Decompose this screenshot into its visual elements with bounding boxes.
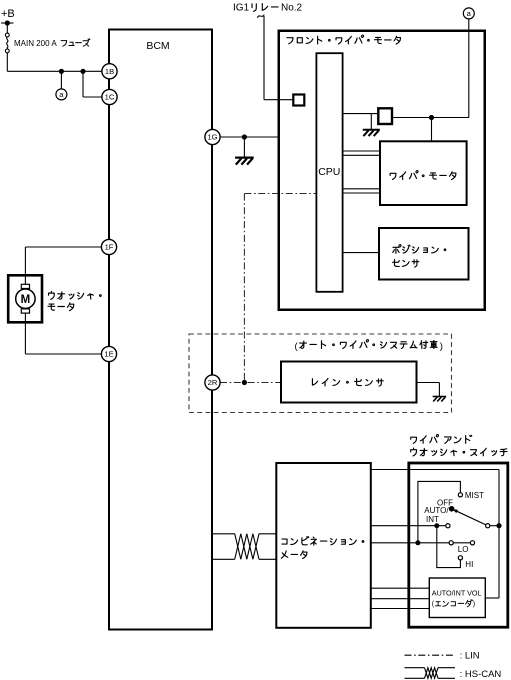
svg-text:1G: 1G (207, 133, 217, 142)
svg-text:2R: 2R (208, 378, 218, 387)
svg-text:: LIN: : LIN (460, 651, 480, 662)
svg-text:1F: 1F (105, 243, 114, 252)
svg-text:INT: INT (426, 515, 439, 524)
svg-text:BCM: BCM (146, 40, 169, 52)
svg-text:1C: 1C (105, 93, 115, 102)
svg-text:AUTO/INT VOL: AUTO/INT VOL (432, 588, 482, 597)
svg-text:+B: +B (1, 8, 15, 20)
svg-text:CPU: CPU (318, 166, 340, 178)
svg-text:1E: 1E (104, 350, 113, 359)
svg-text:): ) (440, 341, 443, 352)
svg-text:: HS-CAN: : HS-CAN (460, 669, 502, 680)
svg-text:): ) (473, 599, 475, 608)
svg-text:AUTO/: AUTO/ (424, 506, 449, 515)
svg-text:LO: LO (458, 545, 469, 554)
svg-text:M: M (21, 294, 31, 306)
svg-text:HI: HI (465, 560, 473, 569)
svg-text:MAIN 200 A: MAIN 200 A (14, 39, 57, 48)
svg-text:IG1: IG1 (233, 3, 250, 14)
svg-text:No.2: No.2 (281, 3, 303, 14)
svg-text:MIST: MIST (465, 491, 484, 500)
svg-text:1B: 1B (105, 67, 114, 76)
